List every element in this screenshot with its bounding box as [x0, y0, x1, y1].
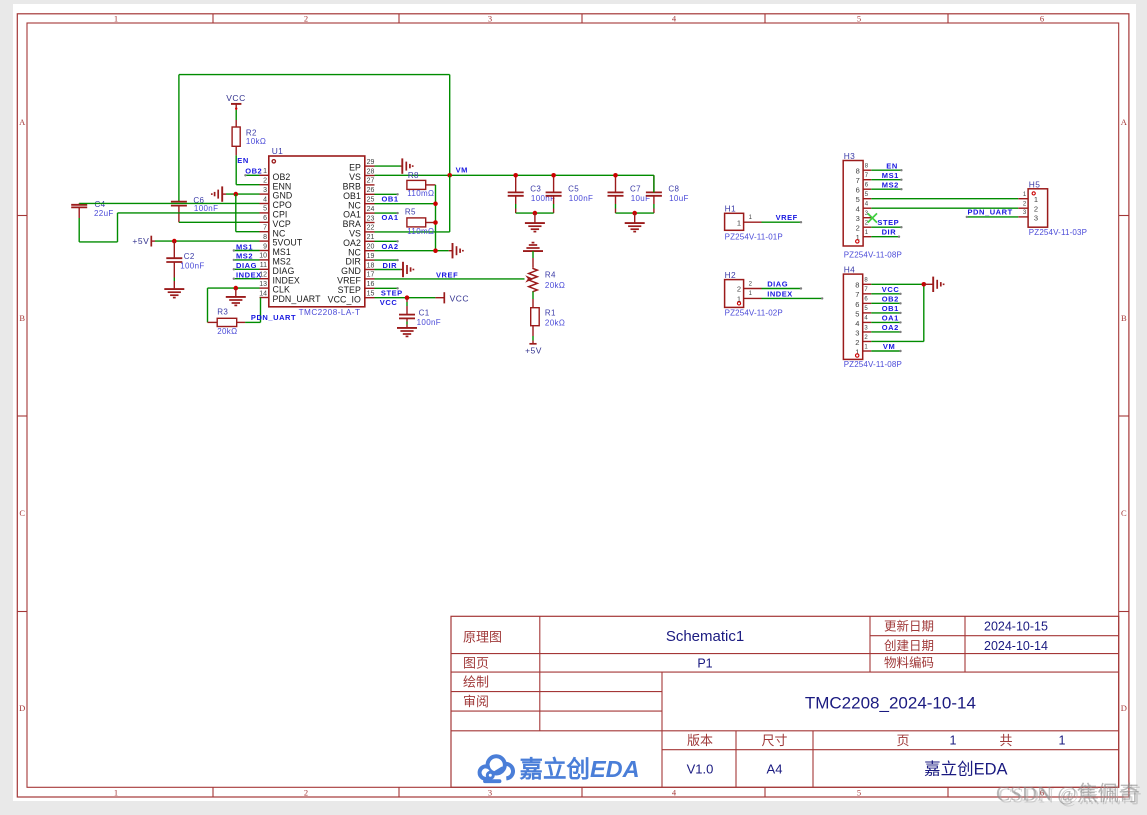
wire [532, 251, 534, 268]
capacitor C7 [608, 175, 624, 213]
svg-text:3: 3 [1023, 210, 1027, 216]
junction [433, 248, 438, 253]
R4 labels [545, 270, 565, 290]
svg-text:2: 2 [856, 224, 860, 233]
H1 value [725, 232, 783, 241]
svg-text:4: 4 [263, 196, 267, 203]
net label VM [456, 166, 468, 175]
svg-text:110mΩ: 110mΩ [407, 227, 434, 236]
wire CLK net [208, 288, 260, 322]
ground (C2) [164, 289, 184, 298]
C8 labels [668, 185, 688, 203]
svg-text:绘制: 绘制 [463, 674, 489, 689]
svg-text:图页: 图页 [463, 656, 489, 671]
net label OB1 (H4) + wire [871, 304, 901, 314]
svg-text:C: C [1121, 508, 1127, 518]
svg-text:27: 27 [367, 178, 375, 185]
svg-text:3: 3 [263, 187, 267, 194]
net label DIAG + wire [233, 261, 260, 270]
connector H5 [1018, 189, 1047, 227]
junction [447, 173, 452, 178]
no-connect X (H3 pin3) [868, 213, 877, 222]
svg-text:2: 2 [263, 178, 267, 185]
H3 value [844, 251, 902, 260]
junction [922, 282, 927, 287]
U1 pin-1 indicator [272, 160, 275, 163]
ground (C3 C5) [525, 213, 545, 232]
power flag +5V (left) [132, 236, 155, 247]
net label OA1 (H4) + wire [871, 314, 901, 324]
svg-text:1: 1 [737, 218, 741, 227]
wire [178, 75, 180, 202]
svg-text:1: 1 [263, 168, 267, 175]
H2 value [725, 309, 783, 318]
connector H4 [843, 274, 871, 359]
ground (C1) [397, 328, 417, 337]
ground (CLK) [226, 288, 246, 305]
svg-text:18: 18 [367, 262, 375, 269]
net label MS1 + wire [233, 242, 260, 251]
connector H3 [843, 161, 871, 247]
wire [375, 287, 399, 289]
junction [533, 211, 538, 216]
net label PDN_UART [251, 313, 296, 322]
capacitor C5 [546, 175, 562, 213]
svg-text:OA2: OA2 [382, 242, 399, 251]
potentiometer R4 [525, 268, 537, 293]
connector H4 refdes [844, 265, 856, 275]
net label STEP (H3) + wire [871, 218, 902, 228]
svg-text:OA1: OA1 [882, 314, 899, 323]
C1 labels [417, 309, 441, 327]
svg-text:PZ254V-11-02P: PZ254V-11-02P [725, 309, 783, 318]
svg-text:1: 1 [950, 733, 957, 747]
svg-text:DIR: DIR [882, 228, 897, 237]
svg-text:R4: R4 [545, 270, 556, 279]
svg-text:4: 4 [865, 202, 869, 208]
svg-text:V1.0: V1.0 [687, 762, 714, 777]
net label DIR + wire [375, 261, 401, 270]
capacitor C2 [166, 241, 182, 289]
wire [375, 175, 450, 232]
junction [513, 173, 617, 178]
svg-text:VCC: VCC [882, 285, 900, 294]
svg-text:19: 19 [367, 253, 375, 260]
svg-text:VCC: VCC [380, 298, 398, 307]
svg-text:3: 3 [488, 14, 492, 24]
svg-text:8: 8 [864, 278, 868, 284]
svg-text:8: 8 [855, 281, 859, 290]
net label MS1 (H3) + wire [871, 171, 902, 181]
wire [435, 185, 437, 251]
svg-text:10kΩ: 10kΩ [246, 137, 266, 146]
connector H1 [725, 213, 762, 230]
net label MS2 (H3) + wire [871, 180, 902, 190]
svg-text:4: 4 [672, 787, 677, 797]
title block grid [451, 616, 1119, 787]
svg-text:22uF: 22uF [94, 209, 114, 218]
svg-text:7: 7 [864, 287, 868, 293]
svg-text:15: 15 [367, 291, 375, 298]
svg-text:U1: U1 [272, 146, 284, 156]
svg-text:5: 5 [263, 206, 267, 213]
wire EN net [236, 155, 259, 184]
resistor R1 [531, 308, 540, 336]
svg-text:5: 5 [864, 306, 868, 312]
resistor R3 [208, 318, 246, 326]
net label VM (H4) + wire [871, 342, 901, 352]
svg-text:20kΩ: 20kΩ [545, 281, 565, 290]
logo JLCEDA cloud [480, 756, 513, 781]
resistor R8 [407, 180, 436, 189]
svg-text:24: 24 [367, 206, 375, 213]
op-amp U1 TMC2208-LA-T body [269, 156, 365, 307]
svg-text:EN: EN [886, 161, 898, 170]
svg-text:嘉立创EDA: 嘉立创EDA [520, 755, 640, 782]
wire [245, 298, 260, 323]
svg-text:INDEX: INDEX [767, 290, 793, 299]
net label OB2 (H4) + wire [871, 294, 901, 304]
junction [632, 211, 637, 216]
R8 value [407, 189, 434, 198]
svg-text:22: 22 [367, 225, 375, 232]
svg-text:VREF: VREF [436, 270, 458, 279]
svg-text:MS1: MS1 [882, 171, 899, 180]
svg-text:D: D [1121, 703, 1127, 713]
svg-text:H4: H4 [844, 265, 856, 275]
svg-text:C2: C2 [184, 252, 195, 261]
C6 labels [193, 196, 218, 213]
U1 value TMC2208-LA-T [299, 308, 361, 317]
svg-text:1: 1 [749, 215, 753, 221]
svg-text:100nF: 100nF [417, 318, 441, 327]
wire [532, 292, 534, 308]
svg-text:6: 6 [856, 186, 860, 195]
svg-text:OB2: OB2 [245, 166, 262, 175]
svg-text:R2: R2 [246, 128, 257, 137]
svg-text:C7: C7 [630, 185, 641, 194]
svg-text:20kΩ: 20kΩ [217, 327, 237, 336]
svg-text:26: 26 [367, 187, 375, 194]
power flag +5V (bottom) [525, 336, 542, 356]
svg-text:23: 23 [367, 215, 375, 222]
svg-text:R8: R8 [408, 171, 419, 180]
svg-text:C3: C3 [530, 185, 541, 194]
svg-text:20: 20 [367, 244, 375, 251]
wire [375, 193, 399, 195]
svg-text:3: 3 [855, 328, 859, 337]
junction [172, 239, 177, 244]
svg-text:7: 7 [855, 290, 859, 299]
svg-text:10: 10 [259, 253, 267, 260]
svg-text:2024-10-15: 2024-10-15 [984, 620, 1048, 634]
net label VREF [436, 270, 458, 279]
svg-text:4: 4 [856, 205, 860, 214]
svg-text:OB2: OB2 [882, 294, 899, 303]
svg-text:10uF: 10uF [669, 194, 689, 203]
svg-text:2: 2 [855, 338, 859, 347]
C4 labels [94, 200, 114, 218]
svg-text:7: 7 [263, 225, 267, 232]
svg-text:MS2: MS2 [882, 180, 899, 189]
svg-text:A: A [19, 117, 26, 127]
svg-text:PDN_UART: PDN_UART [273, 294, 322, 304]
svg-text:嘉立创EDA: 嘉立创EDA [924, 760, 1007, 779]
svg-text:2: 2 [304, 14, 308, 24]
svg-text:PZ254V-11-03P: PZ254V-11-03P [1029, 228, 1087, 237]
title block text [463, 619, 1066, 779]
svg-text:1: 1 [865, 230, 869, 236]
svg-text:5: 5 [865, 192, 869, 198]
svg-text:STEP: STEP [877, 218, 899, 227]
svg-text:DIR: DIR [383, 261, 398, 270]
R8 refdes [408, 171, 419, 180]
svg-text:6: 6 [1040, 14, 1044, 24]
net label MS2 + wire [233, 252, 260, 261]
svg-text:6: 6 [855, 300, 859, 309]
svg-text:物料编码: 物料编码 [884, 655, 934, 670]
power flag VCC (right) [435, 292, 469, 303]
svg-text:7: 7 [856, 176, 860, 185]
svg-text:2: 2 [1023, 202, 1027, 208]
capacitor C4 [71, 203, 87, 218]
svg-text:6: 6 [864, 297, 868, 303]
svg-text:1: 1 [1034, 195, 1038, 204]
svg-text:Schematic1: Schematic1 [666, 628, 744, 645]
connector H5 refdes [1029, 180, 1041, 190]
svg-text:C8: C8 [668, 185, 679, 194]
svg-text:14: 14 [259, 290, 267, 297]
wire [516, 212, 554, 214]
svg-text:2: 2 [1034, 205, 1038, 214]
resistor R5 [407, 218, 436, 227]
wire H4 ground net [871, 284, 924, 341]
svg-text:页: 页 [896, 733, 909, 748]
svg-text:TMC2208_2024-10-14: TMC2208_2024-10-14 [805, 693, 976, 712]
svg-text:H2: H2 [725, 270, 737, 280]
capacitor C6 [171, 202, 187, 223]
svg-text:3: 3 [1034, 213, 1038, 222]
U1 refdes [272, 146, 284, 156]
wire [79, 213, 259, 242]
wire [179, 221, 260, 223]
C5 labels [568, 185, 593, 203]
junction [433, 220, 438, 225]
junction [433, 201, 438, 206]
svg-text:OB1: OB1 [882, 304, 899, 313]
svg-text:8: 8 [856, 167, 860, 176]
svg-text:PZ254V-11-01P: PZ254V-11-01P [725, 232, 783, 241]
svg-text:EN: EN [237, 156, 249, 165]
svg-text:VCC_IO: VCC_IO [328, 294, 361, 304]
svg-text:28: 28 [367, 168, 375, 175]
wire VREF [375, 278, 525, 280]
svg-text:原理图: 原理图 [463, 630, 502, 645]
svg-text:C4: C4 [95, 200, 106, 209]
wire VM top loop [179, 75, 450, 176]
H5 value [1029, 228, 1087, 237]
svg-text:C: C [19, 508, 25, 518]
svg-text:8: 8 [865, 164, 869, 170]
svg-text:A: A [1121, 117, 1128, 127]
svg-text:创建日期: 创建日期 [884, 639, 934, 653]
svg-text:5: 5 [855, 309, 859, 318]
svg-text:VCC: VCC [226, 93, 245, 103]
svg-text:2: 2 [304, 787, 308, 797]
svg-text:VM: VM [456, 166, 468, 175]
svg-text:H3: H3 [844, 151, 856, 161]
wire [79, 202, 259, 204]
svg-text:更新日期: 更新日期 [884, 619, 934, 634]
net label DIR (H3) + wire [871, 228, 900, 238]
svg-text:4: 4 [855, 319, 859, 328]
svg-text:DIAG: DIAG [767, 280, 788, 289]
wire [226, 193, 260, 195]
connector H3 refdes [844, 151, 856, 161]
svg-text:20kΩ: 20kΩ [545, 319, 565, 328]
svg-text:1: 1 [114, 787, 118, 797]
H4 value [844, 360, 902, 369]
svg-text:C5: C5 [568, 185, 579, 194]
svg-text:PZ254V-11-08P: PZ254V-11-08P [844, 251, 902, 260]
net label INDEX (H2) + wire [762, 290, 824, 300]
svg-text:B: B [1121, 313, 1127, 323]
svg-text:CSDN @焦佩奇: CSDN @焦佩奇 [996, 781, 1140, 805]
logo JLCEDA text [520, 755, 640, 782]
svg-text:VREF: VREF [776, 213, 798, 222]
connector H2 [725, 280, 762, 308]
svg-text:8: 8 [263, 234, 267, 241]
junction [234, 192, 239, 197]
svg-text:100nF: 100nF [569, 194, 593, 203]
svg-text:3: 3 [856, 214, 860, 223]
svg-text:110mΩ: 110mΩ [407, 189, 434, 198]
ground above R4 (inverted) [523, 241, 543, 251]
svg-text:2: 2 [864, 335, 868, 341]
svg-text:4: 4 [864, 316, 868, 322]
R5 value [407, 227, 434, 236]
net label STEP [381, 289, 403, 298]
R1 labels [545, 309, 565, 328]
ground (DIR) [401, 262, 414, 277]
ground (C7 C8) [625, 213, 645, 232]
wire H3.4 to H5.2 [871, 207, 1018, 209]
svg-text:OA2: OA2 [882, 323, 899, 332]
wire [236, 194, 260, 232]
connector H1 refdes [725, 204, 737, 214]
net label DIAG (H2) + wire [762, 280, 803, 290]
capacitor C1 [399, 298, 415, 328]
svg-text:共: 共 [999, 733, 1012, 748]
ground (H4) [924, 277, 944, 292]
wire H3.5 to H5.1 [871, 198, 1018, 200]
svg-text:7: 7 [865, 173, 869, 179]
svg-text:1: 1 [864, 344, 868, 350]
svg-text:16: 16 [367, 281, 375, 288]
svg-text:100nF: 100nF [194, 204, 218, 213]
wire [653, 175, 655, 192]
C7 labels [630, 185, 650, 203]
C3 labels [530, 185, 555, 203]
svg-text:C1: C1 [419, 309, 430, 318]
U1 right pins 29-15 [328, 159, 375, 304]
svg-text:6: 6 [865, 183, 869, 189]
svg-text:2: 2 [749, 281, 753, 287]
C2 labels [180, 252, 204, 271]
svg-text:STEP: STEP [381, 289, 403, 298]
wire [375, 240, 399, 242]
svg-text:5: 5 [857, 14, 861, 24]
watermark CSDN [996, 781, 1142, 807]
net label INDEX + wire [233, 271, 262, 280]
svg-text:+5V: +5V [132, 236, 149, 246]
svg-text:5: 5 [857, 787, 861, 797]
net label OB1 + wire [375, 195, 436, 204]
svg-text:6: 6 [263, 215, 267, 222]
svg-text:3: 3 [488, 787, 492, 797]
svg-text:P1: P1 [697, 656, 712, 670]
svg-text:OB1: OB1 [382, 195, 399, 204]
R5 refdes [405, 207, 416, 216]
svg-text:1: 1 [1023, 192, 1027, 198]
wire [235, 107, 237, 127]
capacitor C3 [508, 175, 524, 213]
power flag VCC (top) [226, 93, 245, 110]
svg-text:尺寸: 尺寸 [761, 733, 787, 748]
net label OA1 [382, 213, 399, 222]
svg-text:PDN_UART: PDN_UART [251, 313, 296, 322]
junction [234, 286, 239, 291]
U1 left pins 1-14 [259, 168, 321, 304]
wire VM rail [375, 174, 654, 176]
ground (OA2) [449, 243, 463, 258]
svg-text:R5: R5 [405, 207, 416, 216]
svg-text:2: 2 [737, 285, 741, 294]
resistor R2 [232, 127, 240, 155]
net label OA2 + wire [375, 242, 449, 251]
svg-text:R1: R1 [545, 309, 556, 318]
svg-text:H1: H1 [725, 204, 737, 214]
R2 labels [246, 128, 266, 146]
svg-text:R3: R3 [217, 308, 228, 317]
net label VCC [380, 298, 398, 307]
svg-text:PZ254V-11-08P: PZ254V-11-08P [844, 360, 902, 369]
svg-text:13: 13 [259, 281, 267, 288]
connector H2 refdes [725, 270, 737, 280]
svg-text:VCC: VCC [450, 293, 469, 303]
R3 labels [217, 308, 237, 337]
net label VREF (H1) + wire [762, 213, 803, 223]
wire [375, 297, 436, 299]
junction [405, 295, 410, 300]
wire [616, 212, 654, 214]
wire [375, 212, 399, 214]
net label EN [237, 156, 249, 165]
net label PDN_UART (H5) + wire [966, 208, 1019, 218]
svg-text:+5V: +5V [525, 346, 542, 356]
svg-text:21: 21 [367, 234, 375, 241]
svg-text:3: 3 [864, 325, 868, 331]
net label VCC (H4) + wire [871, 285, 901, 295]
svg-text:1: 1 [114, 14, 118, 24]
svg-text:OA1: OA1 [382, 213, 399, 222]
svg-text:29: 29 [367, 159, 375, 166]
svg-text:5: 5 [856, 195, 860, 204]
net label OA2 (H4) + wire [871, 323, 901, 333]
svg-text:TMC2208-LA-T: TMC2208-LA-T [299, 308, 361, 317]
ground (EP pin29) [375, 158, 413, 173]
svg-text:100nF: 100nF [180, 261, 204, 270]
